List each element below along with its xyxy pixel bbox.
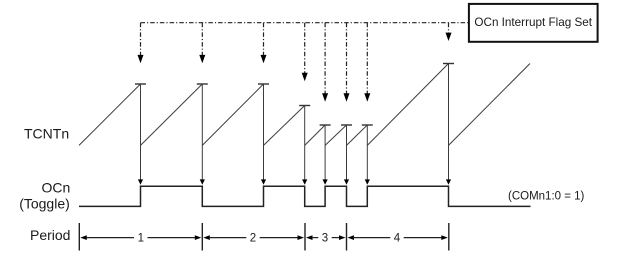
TCNTn ramp 6 <box>325 125 346 145</box>
TCNTn peak cap 7 <box>362 124 373 126</box>
flag arrow 5 <box>322 23 328 102</box>
svg-text:3: 3 <box>322 233 328 245</box>
flag arrow 2 <box>199 23 205 64</box>
dash-dot flag bus wire <box>141 22 468 24</box>
TCNTn fall and pointer wire 6 <box>344 125 349 185</box>
OCn toggle waveform wire <box>79 186 531 206</box>
TCNTn peak cap 4 <box>299 105 310 107</box>
TCNTn ramp 4 <box>264 106 305 146</box>
period span 1 <box>80 233 201 245</box>
TCNTn ramp 8 <box>367 64 448 146</box>
TCNTn ramp 5 <box>305 125 325 145</box>
TCNTn peak cap 2 <box>197 83 208 85</box>
TCNTn ramp 3 <box>202 84 263 145</box>
TCNTn ramp 7 <box>347 125 368 145</box>
OCn Interrupt Flag Set box U1 <box>469 4 598 42</box>
TCNTn peak cap 5 <box>320 124 331 126</box>
svg-text:OCn: OCn <box>42 179 71 195</box>
flag arrow 1 <box>138 23 144 64</box>
svg-text:(Toggle): (Toggle) <box>19 196 70 212</box>
svg-text:Period: Period <box>30 227 70 243</box>
period span 2 <box>203 233 304 245</box>
svg-text:TCNTn: TCNTn <box>24 125 69 141</box>
TCNTn fall and pointer wire 4 <box>302 106 307 185</box>
flag arrow 4 <box>302 23 308 81</box>
period tick 1 <box>78 223 80 251</box>
TCNTn fall and pointer wire 5 <box>323 125 328 185</box>
TCNTn peak cap 1 <box>135 83 146 85</box>
TCNTn ramp 2 <box>141 84 203 145</box>
TCNTn fall and pointer wire 8 <box>446 64 451 185</box>
svg-text:4: 4 <box>394 233 401 245</box>
TCNTn ramp 9 <box>449 64 531 146</box>
TCNTn peak cap 3 <box>258 83 269 85</box>
TCNTn fall and pointer wire 3 <box>261 84 266 185</box>
period span 4 <box>348 233 448 245</box>
TCNTn fall and pointer wire 7 <box>365 125 370 185</box>
svg-text:(COMn1:0 = 1): (COMn1:0 = 1) <box>508 191 585 203</box>
TCNTn fall and pointer wire 2 <box>200 84 205 185</box>
TCNTn peak cap 8 <box>443 63 454 65</box>
period tick 5 <box>448 223 450 251</box>
svg-text:OCn Interrupt Flag Set: OCn Interrupt Flag Set <box>474 16 592 29</box>
TCNTn peak cap 6 <box>341 124 352 126</box>
flag arrow 7 <box>364 23 370 102</box>
TCNTn ramp 1 <box>79 84 141 145</box>
svg-text:1: 1 <box>138 233 144 245</box>
svg-text:2: 2 <box>250 233 256 245</box>
TCNTn fall and pointer wire 1 <box>138 84 143 185</box>
flag arrow 6 <box>344 23 350 102</box>
period tick 4 <box>346 223 348 251</box>
label OCn (Toggle) <box>19 179 70 211</box>
period tick 2 <box>201 223 203 251</box>
period span 3 <box>306 233 346 245</box>
period tick 3 <box>304 223 306 251</box>
flag arrow 3 <box>261 23 267 64</box>
flag arrow 8 <box>446 23 452 41</box>
